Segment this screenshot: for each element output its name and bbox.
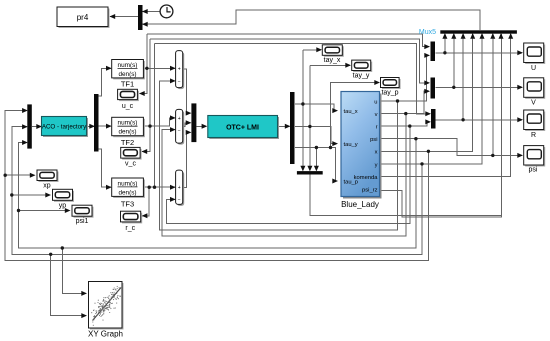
svg-text:u: u [374,99,377,105]
arrow into sum1 plus [170,66,176,71]
wire mux U out to scope U [436,52,523,54]
wire pr4 mux output to pr4 [110,16,138,18]
mux pr4-mux [138,5,143,30]
svg-text:psi: psi [529,167,538,174]
display v_c [121,147,142,159]
node tau_n tap tay_p [329,146,332,149]
arrows into Mux5 [442,33,447,39]
arrow into Blue_Lady in2 [332,141,338,146]
arrow into tay_p [374,80,380,85]
wire tau_x tap to tay_x and hmux [302,50,304,166]
svg-text:V: V [531,100,536,107]
svg-text:x: x [375,150,378,156]
arrow into mux2 in3 [186,130,192,135]
node psi scope tap [491,154,494,157]
sum sum1 [176,51,185,90]
svg-text:den(s): den(s) [118,71,136,78]
arrow into TF2 [106,124,112,129]
wire y branch to yp [12,194,50,196]
wire u out to mux U in2 [380,55,429,101]
display u_c [118,89,139,101]
node psi1 branch [17,209,20,212]
mux mux-R [431,109,436,129]
node u scope tap [443,51,446,54]
svg-text:tay_p: tay_p [381,90,398,97]
arrow into scope U [517,50,523,55]
node v feedback tap [404,112,407,115]
svg-text:+: + [178,67,181,73]
wire TF2 tap up to bus2 and down to v_c [149,39,151,126]
arrow into left mux in3 [22,140,28,145]
wire y out to Mux5 [380,34,482,164]
node psi feedback tap [414,137,417,140]
wire TF1 tap up to bus1 and down to u_c [146,34,148,68]
arrow into xp [30,173,36,178]
arrow clock into pr4 mux [142,9,148,14]
bus3 r_c reference to mux R in1 [155,43,431,114]
wire TF3 tap up to bus3 [154,43,156,187]
node XY in1 tap [61,246,64,249]
svg-text:tau_x: tau_x [344,109,358,115]
block XY Graph [89,282,124,330]
arrow into scope V [517,85,523,90]
node tau_x tap [301,102,304,105]
arrow into yp [45,193,51,198]
mux mux-V [431,78,436,99]
wire v out to mux V in2 [380,91,429,113]
bus2 v_c reference to mux V in1 [150,39,429,83]
svg-text:OTC+ LMI: OTC+ LMI [226,124,259,131]
wire tau_n demux2 to Blue_Lady in3 [295,148,337,182]
node yp branch [10,193,13,196]
wire XY graph in1 from psi wrap [62,248,86,293]
wire clock to pr4 mux [143,11,160,13]
arrow into demux2 [285,124,291,129]
wire u tap up to Mux5 [444,34,446,53]
wire hmux output wrap to Mux5 [310,34,502,215]
display tay_x [322,45,344,57]
block ACO - tarjectory [42,117,89,138]
wire ACO to demux1 [87,125,94,127]
arrow into mux2 in1 [186,111,192,116]
svg-text:−: − [178,128,181,134]
node v scope tap [452,86,455,89]
wire TF2 out to sum2 plus [144,118,175,126]
svg-text:+: + [178,185,181,191]
arrow into psi1 [65,208,71,213]
svg-text:den(s): den(s) [118,129,136,136]
wire tau_n tap down to hmux [315,148,317,167]
svg-text:r_c: r_c [125,225,135,232]
demux demux2 [290,92,295,164]
node r scope tap [461,118,464,121]
wire OTC to demux2 [278,125,290,127]
node tau_n tap hmux [315,146,318,149]
display yp [53,189,75,202]
arrow into scope R [517,117,523,122]
arrow into Blue_Lady in1 [332,108,338,113]
arrow into mux R in1 [425,111,431,116]
bus1 u_c reference to mux U in1 [147,34,429,46]
node u feedback tap [396,99,399,102]
svg-text:num(s): num(s) [118,180,138,187]
arrow into ACO [36,124,42,129]
mux hmux (horizontal) [297,171,323,174]
svg-text:tay_y: tay_y [353,73,370,80]
svg-text:tau_y: tau_y [344,142,358,148]
block TF1 num(s)/den(s) [112,60,145,80]
arrow into mux2 in2 [186,120,192,125]
display psi1 [72,205,94,218]
wire psi_rz out joins Mux5 column [380,34,502,217]
node TF3-out tap bus3 [153,186,156,189]
wire psi out to scope psi [380,139,522,156]
wire sum1 out to mux2 in1 [183,69,191,113]
svg-text:y: y [375,162,378,168]
svg-text:psi_rz: psi_rz [362,187,378,193]
svg-text:U: U [531,65,536,72]
svg-text:v: v [375,112,378,118]
arrow into scope psi [517,153,523,158]
block OTC+ LMI [208,116,279,140]
node y feedback tap [420,162,423,165]
wire y wrap to left mux in2 [12,127,422,255]
node TF2-out tap [148,124,151,127]
wire r feedback wrap to sum3 minus [167,126,410,223]
wire mux V out to scope V [436,86,523,88]
svg-text:komenda: komenda [354,175,379,181]
wire x branch to xp [5,174,34,176]
svg-text:xp: xp [43,183,51,190]
svg-text:u_c: u_c [122,103,134,110]
arrow into pr4 [110,14,116,19]
scope psi [524,146,546,167]
svg-text:TF2: TF2 [121,138,134,147]
arrow into mux R in2 [425,119,431,124]
arrow mux5 line into pr4 mux [142,22,148,27]
wire TF1 out to sum1 plus [144,67,175,69]
wire demux1 out1 to TF1 [99,68,112,96]
svg-text:R: R [531,132,536,139]
arrow into OTC [202,124,208,129]
wire psi tap up to Mux5 [492,34,494,155]
arrow into mux U in2 [424,53,430,58]
node TF3-out tap r_c [148,186,151,189]
arrow into sum2 plus [170,115,176,120]
wire tau_y demux2 to Blue_Lady in2 [295,127,337,144]
arrow into mux U in1 [424,44,430,49]
node XY in2 tap [49,253,52,256]
arrows into hmux [300,166,305,172]
display tay_p [381,78,401,90]
svg-text:psi1: psi1 [76,218,89,225]
svg-text:TF1: TF1 [121,80,134,89]
arrow into TF1 [106,66,112,71]
svg-text:Blue_Lady: Blue_Lady [341,200,379,209]
svg-text:TF3: TF3 [121,200,134,209]
wire r out to mux R in2 [380,122,430,126]
svg-text:yp: yp [59,203,67,210]
arrow into Blue_Lady in3 [332,179,338,184]
sum sum2 [176,109,185,144]
arrow into XY in1 [81,291,87,296]
display r_c [121,211,143,223]
node x feedback tap [427,150,430,153]
clock [160,5,173,18]
svg-text:−: − [178,198,181,204]
wire left mux to ACO [32,126,41,128]
scope R [524,110,546,131]
arrow into mux V in1 [424,80,430,85]
block pr4 (To Workspace) [57,7,110,28]
arrow into mux V in2 [424,89,430,94]
wire tau_n tap up to tay_p [331,83,380,148]
arrow into sum3 plus [170,185,176,190]
wire mux R out to scope R [436,119,523,121]
mux mux-U [431,42,436,62]
arrow into sum3 minus [170,197,176,202]
arrow into sum2 minus [170,127,176,132]
svg-text:den(s): den(s) [118,189,136,196]
wire sum3 out to mux2 in3 [183,132,191,187]
wire psi wrap to left mux in3 [19,139,416,248]
wire v tap up to Mux5 [453,34,455,87]
svg-text:num(s): num(s) [118,62,138,69]
sum sum3 [176,170,185,206]
arrow into r_c [142,213,148,218]
wire demux1 out3 to TF3 [99,149,112,187]
arrow into v_c [142,149,148,154]
svg-text:XY Graph: XY Graph [88,330,123,339]
arrow into demux1 [89,124,95,129]
wire v feedback wrap to sum2 minus [162,114,406,236]
node TF1-out tap [145,67,148,70]
svg-text:tay_x: tay_x [324,57,341,64]
wire x out to Mux5 [380,34,473,151]
arrow into XY in2 [81,313,87,318]
wire mux2 out to OTC [196,125,206,127]
svg-text:Mux5: Mux5 [419,29,436,36]
arrow into u_c [139,91,145,96]
arrow into TF3 [106,185,112,190]
mux mux2 [191,103,196,142]
node tau_y tap [308,125,311,128]
display xp [37,170,59,182]
wire TF3 out to sum3 plus [144,186,175,188]
arrow into sum1 minus [170,78,176,83]
svg-text:num(s): num(s) [118,120,138,127]
scope V [524,78,546,99]
mux Mux5 (horizontal) [440,30,517,33]
wire Mux5 output top run to pr4 mux [143,10,481,30]
arrow into left mux in1 [22,108,28,113]
wire u feedback wrap to sum1 minus [160,81,398,230]
mux left-mux [27,104,32,148]
block Blue_Lady [341,92,382,199]
block TF3 num(s)/den(s) [112,178,145,198]
wire tau_y tap to tay_y and hmux [309,65,311,166]
arrow into left mux in2 [22,124,28,129]
wire x wrap to left mux in1 [5,111,428,261]
svg-text:ACO - tarjectory: ACO - tarjectory [42,123,87,130]
wire sum2 out to mux2 in2 [183,123,191,127]
wire tau_x demux2 to Blue_Lady in1 [295,104,337,111]
svg-text:pr4: pr4 [77,13,89,22]
display tay_y [352,60,373,72]
wire psi branch to psi1 [19,210,70,212]
node xp branch [3,174,6,177]
block TF2 num(s)/den(s) [112,117,145,137]
demux demux1 [94,94,99,152]
arrow into tay_y [345,63,351,68]
wire komenda out to Mux5 [380,34,511,176]
wire TF3 tap down to r_c [142,187,149,216]
wire demux1 out2 to TF2 [99,125,112,127]
svg-text:psi: psi [370,137,377,143]
svg-text:v_c: v_c [125,160,136,167]
scope U [524,43,546,64]
arrow into tay_x [316,47,322,52]
svg-text:+: + [178,116,181,122]
svg-text:r: r [376,125,378,131]
wire r tap up to Mux5 [462,34,464,120]
svg-text:−: − [178,79,181,85]
wire XY graph in2 from y wrap [51,254,86,315]
node r feedback tap [408,124,411,127]
